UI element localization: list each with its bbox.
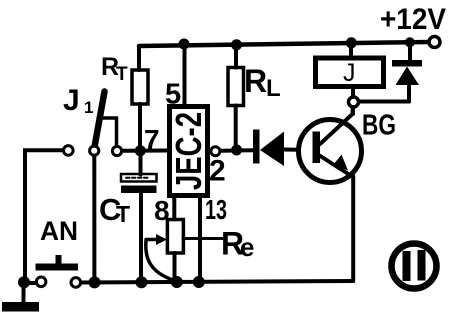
- svg-text:J: J: [343, 59, 356, 87]
- svg-text:1: 1: [84, 98, 93, 117]
- svg-text:BG: BG: [362, 110, 396, 142]
- svg-text:5: 5: [165, 79, 181, 111]
- svg-text:AN: AN: [40, 216, 78, 246]
- svg-text:L: L: [266, 75, 281, 102]
- svg-text:R: R: [244, 63, 267, 99]
- svg-text:T: T: [116, 201, 130, 227]
- svg-text:e: e: [240, 232, 254, 262]
- svg-text:T: T: [116, 64, 128, 85]
- svg-text:13: 13: [205, 194, 227, 225]
- svg-text:7: 7: [144, 124, 160, 155]
- svg-text:8: 8: [154, 195, 170, 226]
- svg-text:JEC-2: JEC-2: [168, 112, 209, 190]
- svg-text:2: 2: [209, 155, 226, 188]
- svg-text:J: J: [63, 84, 80, 117]
- svg-text:+12V: +12V: [380, 3, 446, 36]
